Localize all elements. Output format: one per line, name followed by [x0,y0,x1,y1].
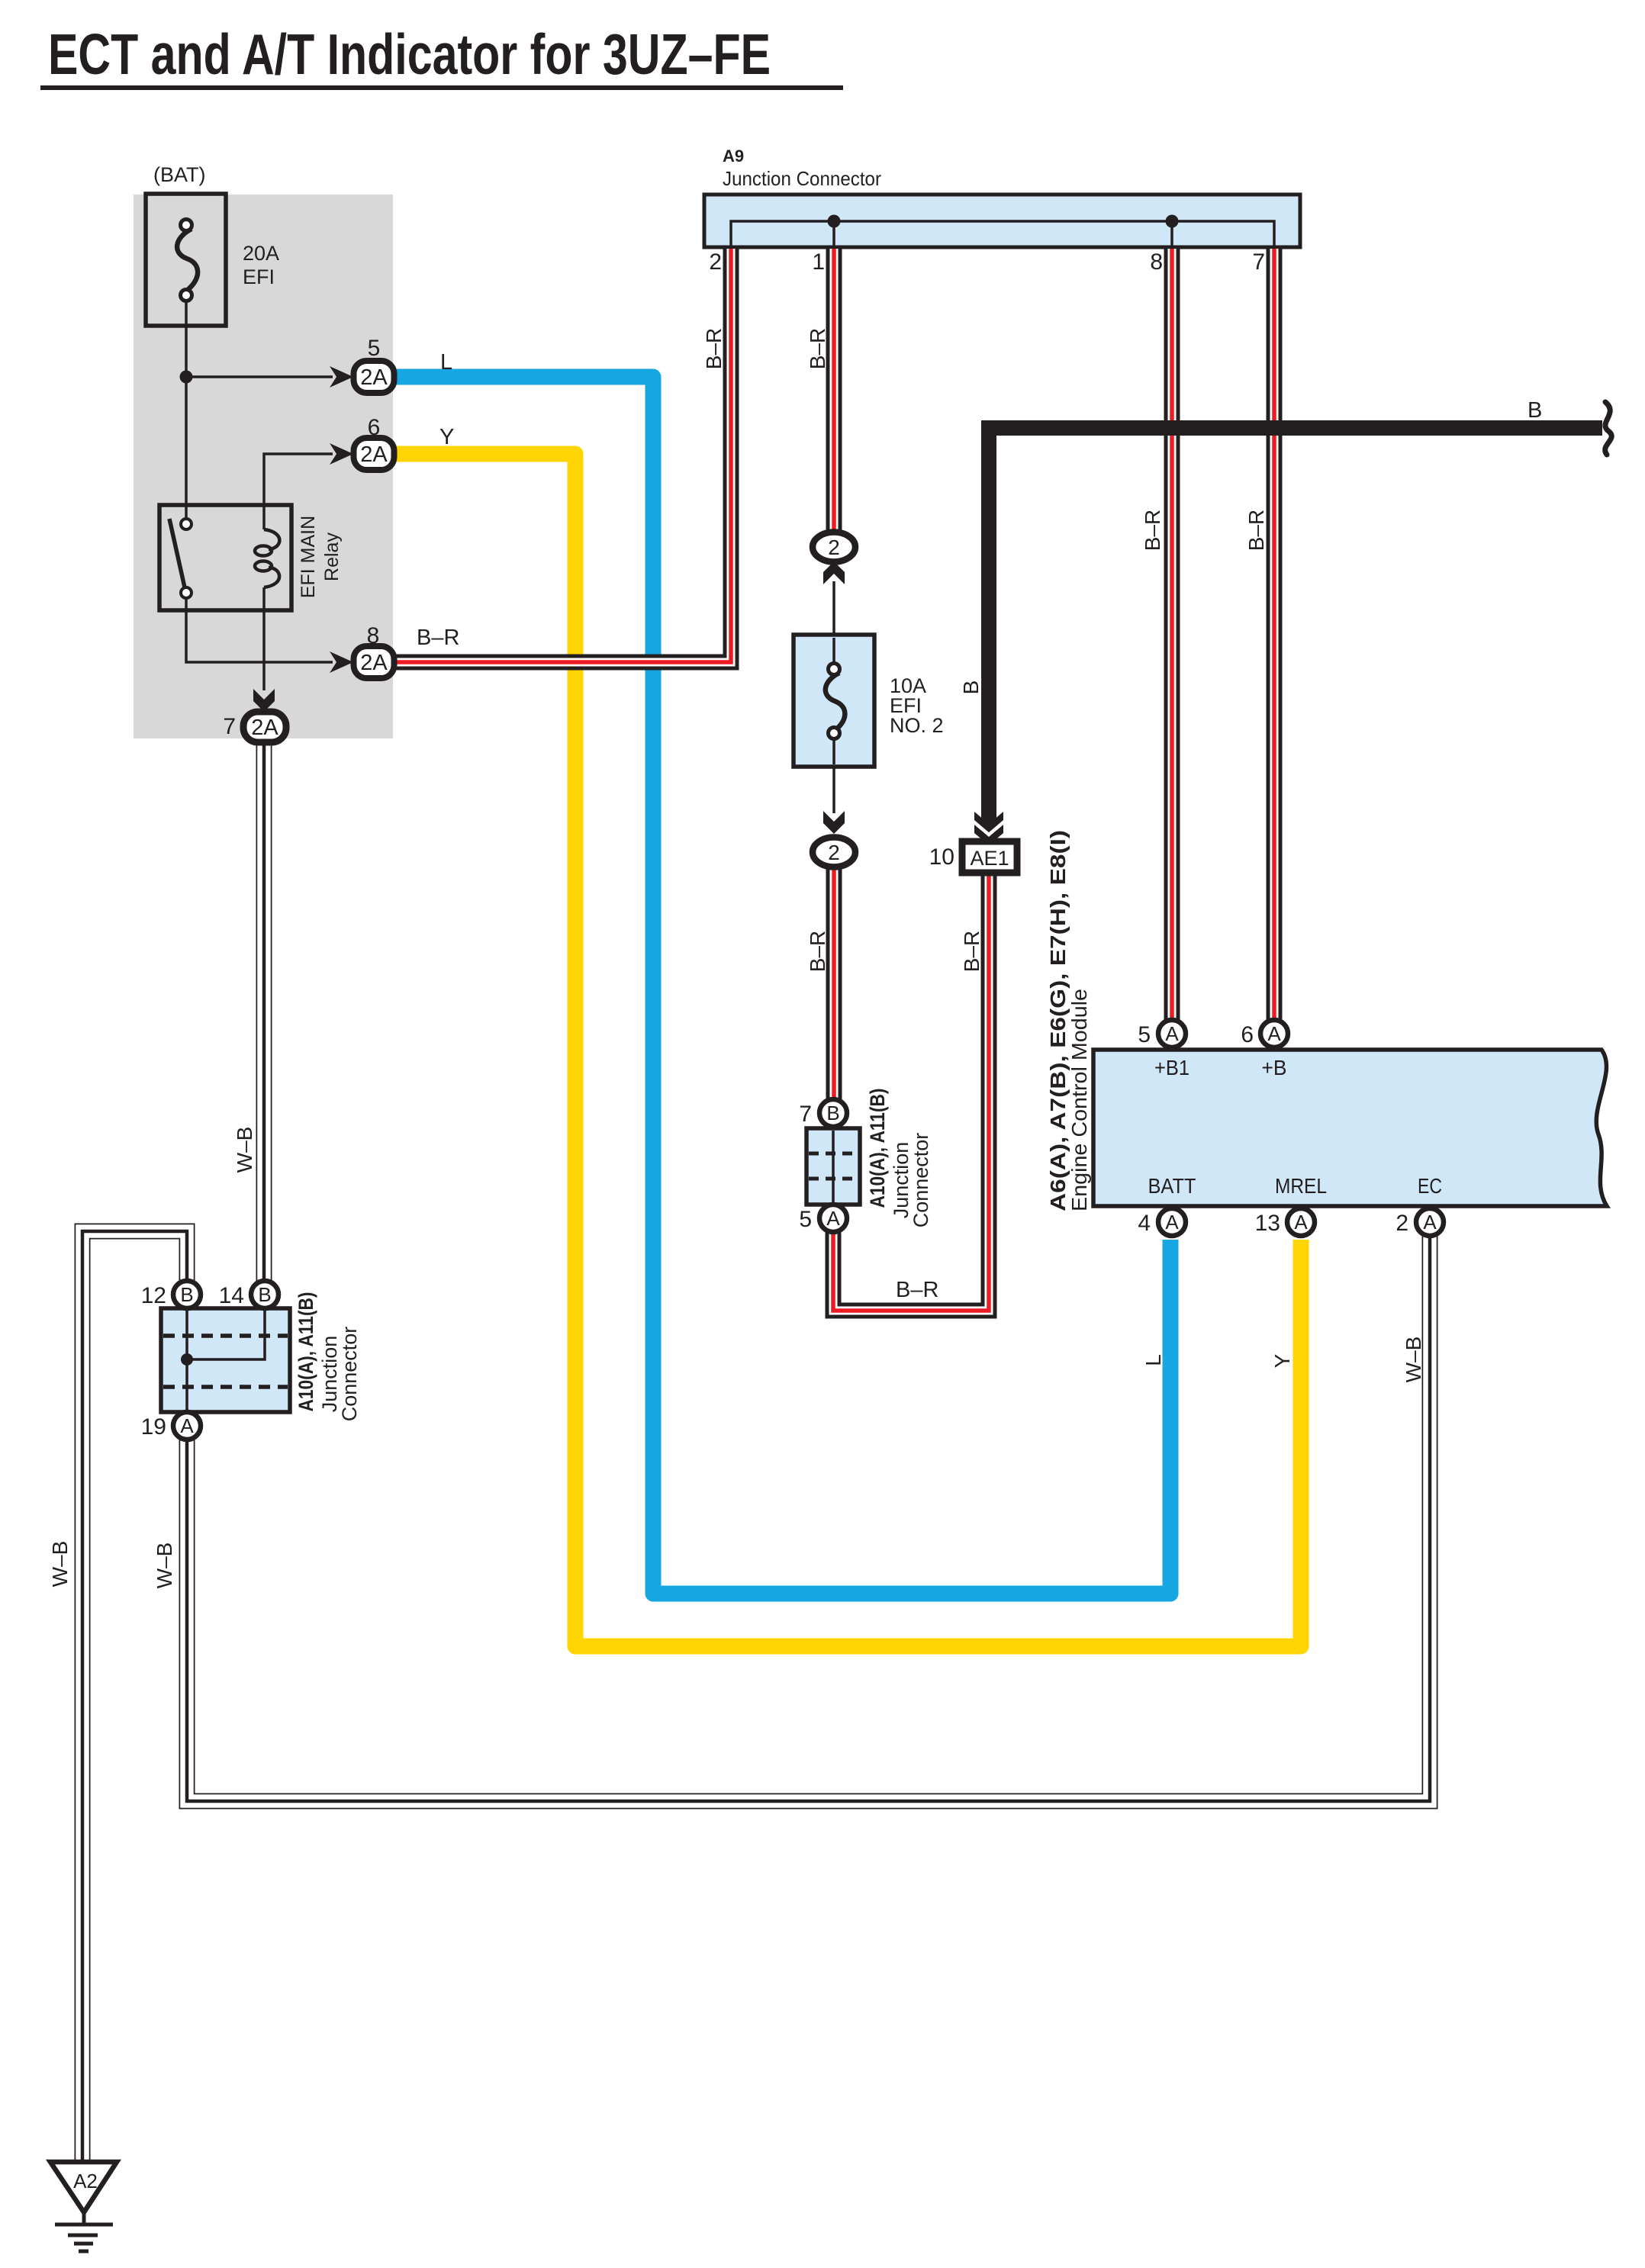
arrow into pin 8 [330,651,353,673]
svg-text:EFI: EFI [243,265,275,288]
svg-text:2A: 2A [360,442,388,467]
arrow into pin 6 [330,443,353,465]
svg-text:MREL: MREL [1275,1174,1327,1198]
svg-text:A: A [1423,1211,1437,1234]
arrow chevron up into connector 2 upper [823,561,845,584]
connector AE1 box [962,841,1017,873]
svg-text:W–B: W–B [153,1543,176,1589]
Engine Control Module box [1093,1050,1607,1206]
svg-text:1: 1 [812,249,825,275]
svg-text:B: B [180,1283,193,1306]
svg-text:6: 6 [368,415,381,440]
svg-text:14: 14 [219,1283,244,1308]
svg-text:7: 7 [223,714,236,739]
wire B-R relay pin8 to A9 pin2 [394,249,731,662]
A9 internal bus wire [731,221,1274,249]
arrow chevron into pin7 2A [253,689,275,712]
svg-text:Junction Connector: Junction Connector [723,167,881,190]
pin circle middle junction pin 7B [819,1099,847,1127]
relay EFI MAIN box [159,505,291,610]
svg-text:AE1: AE1 [970,847,1009,870]
svg-text:2: 2 [828,536,840,559]
svg-text:EC: EC [1418,1174,1442,1198]
svg-text:L: L [1141,1354,1165,1366]
connector oval 2 lower [813,838,855,867]
svg-text:Connector: Connector [338,1327,361,1422]
svg-text:2A: 2A [360,365,388,390]
A9 junction node dot 2 [1166,215,1179,228]
ground A2 symbol [50,2162,117,2251]
junction connector A9 box [704,195,1300,247]
svg-text:B–R: B–R [417,626,459,650]
AE1 lower chevron [974,825,1003,845]
svg-text:6: 6 [1241,1022,1254,1047]
wire B black from ECM area to AE1 [989,428,1602,835]
svg-text:B: B [826,1102,839,1124]
svg-text:2: 2 [1396,1211,1408,1236]
svg-text:Relay: Relay [321,532,343,581]
wire from fuse to relay and pin branches [186,301,333,690]
pin circle ECM pin 2 EC [1416,1208,1444,1236]
svg-text:5: 5 [799,1207,812,1232]
svg-text:ECT and A/T Indicator for 3UZ–: ECT and A/T Indicator for 3UZ–FE [48,22,771,86]
svg-text:Connector: Connector [909,1133,932,1228]
fuse 10A EFI NO.2 symbol [826,638,845,764]
connector oval 2A pin 6 [354,438,394,470]
connector oval 2A pin 7 [243,712,286,742]
svg-text:2: 2 [828,841,840,864]
pin circle ECM pin 13 MREL [1287,1208,1315,1236]
svg-text:+B1: +B1 [1154,1056,1189,1079]
left junction node dot [181,1353,193,1366]
svg-text:B–R: B–R [1141,510,1164,551]
svg-text:A6(A), A7(B), E6(G), E7(H), E8: A6(A), A7(B), E6(G), E7(H), E8(I) [1046,830,1070,1211]
svg-text:NO. 2: NO. 2 [890,714,944,737]
svg-text:B–R: B–R [702,328,726,369]
svg-text:5: 5 [1138,1022,1151,1047]
wire Y yellow from pin6 to ECM MREL [394,454,1301,1646]
pin circle middle junction pin 5A [819,1205,847,1232]
pin circle left junction pin 12B [173,1281,201,1308]
connector oval 2A pin 5 [354,361,394,393]
fuse 20A EFI symbol [177,220,198,301]
svg-text:A9: A9 [723,146,744,166]
title underline [40,85,843,90]
relay coil [255,529,279,587]
thin wire connector2 to fuse NO.2 [832,581,835,813]
A9 junction node dot 1 [828,215,841,228]
pin circle ECM pin 6 +B [1260,1020,1288,1047]
wire B-R A9 pin1 to connector 2 [826,249,842,532]
junction connector A10/A11 left box [161,1308,290,1412]
wire W-B junction pin12 to ground A2 [82,1231,187,2163]
AE1 upper chevron [974,812,1003,832]
left junction dashed lines [163,1336,288,1387]
svg-text:20A: 20A [243,242,279,265]
svg-text:Y: Y [1270,1353,1294,1368]
svg-text:EFI MAIN: EFI MAIN [298,516,319,598]
svg-text:A: A [1165,1211,1179,1234]
wire W-B relay pin7 to junction pin14 [256,737,272,1289]
arrow into pin 5 [330,366,353,388]
svg-text:8: 8 [367,623,380,648]
svg-text:W–B: W–B [233,1127,256,1173]
svg-text:7: 7 [799,1102,812,1127]
left junction internal lines [187,1310,265,1411]
svg-text:(BAT): (BAT) [153,163,206,186]
svg-text:B–R: B–R [960,931,983,972]
gray harness area [134,195,393,738]
svg-text:8: 8 [1150,249,1163,275]
svg-text:B–R: B–R [896,1278,938,1302]
svg-text:A: A [1294,1211,1308,1234]
wire B-R connector 2 to junction pin7B [826,866,842,1106]
pin circle left junction pin 19A [173,1412,201,1440]
white gap between AE1 chevrons [974,820,1003,837]
svg-text:B: B [959,680,983,695]
svg-text:Engine Control Module: Engine Control Module [1067,989,1091,1211]
svg-text:B: B [1527,398,1542,423]
svg-text:A: A [1165,1022,1179,1045]
wire L blue from pin5 to ECM BATT [394,377,1170,1594]
svg-text:A10(A), A11(B): A10(A), A11(B) [866,1089,889,1208]
svg-text:A: A [1267,1022,1281,1045]
fuse 10A EFI NO.2 box [794,635,874,767]
svg-text:2A: 2A [251,716,278,740]
svg-text:+B: +B [1262,1056,1287,1079]
svg-text:2: 2 [709,249,722,275]
connector oval 2A pin 8 [354,646,394,678]
junction connector A10/A11 middle box [806,1128,860,1205]
svg-text:A2: A2 [73,2170,98,2192]
connector oval 2 upper [813,532,855,562]
wire B-R AE1 to junction pin5A [833,876,989,1311]
svg-text:19: 19 [141,1414,166,1440]
wire W-B junction pin19 to ECM EC [187,1230,1430,1801]
svg-text:10: 10 [929,844,954,870]
pin circle ECM pin 5 +B1 [1158,1020,1186,1047]
middle junction dashed lines [809,1153,858,1179]
svg-text:5: 5 [368,336,381,361]
relay switch contacts [169,519,192,598]
svg-text:W–B: W–B [1402,1337,1425,1383]
junction node dot on fuse wire [180,371,193,384]
wire B-R A9 pin7 to ECM +B [1267,249,1283,1030]
svg-text:13: 13 [1255,1211,1280,1236]
svg-text:7: 7 [1252,249,1265,275]
svg-text:B–R: B–R [1244,510,1268,551]
arrow chevron down into connector 2 lower [823,811,845,834]
svg-text:A: A [826,1207,840,1230]
svg-text:Y: Y [439,425,454,449]
svg-text:2A: 2A [360,651,388,675]
svg-text:12: 12 [141,1283,166,1308]
svg-text:BATT: BATT [1148,1174,1196,1198]
svg-text:B: B [258,1283,271,1306]
wire B-R A9 pin8 to ECM +B1 [1164,249,1180,1030]
svg-text:W–B: W–B [48,1541,72,1588]
pin circle ECM pin 4 BATT [1158,1208,1186,1236]
wire break squiggle [1605,402,1612,455]
svg-text:L: L [440,350,452,375]
middle junction internal line [832,1131,835,1202]
svg-text:4: 4 [1138,1211,1151,1236]
svg-text:A: A [180,1414,194,1437]
fuse 20A EFI box [146,194,226,326]
pin circle left junction pin 14B [251,1281,278,1308]
svg-text:B–R: B–R [806,328,829,369]
svg-text:A10(A), A11(B): A10(A), A11(B) [295,1292,317,1412]
svg-text:B–R: B–R [806,931,829,972]
